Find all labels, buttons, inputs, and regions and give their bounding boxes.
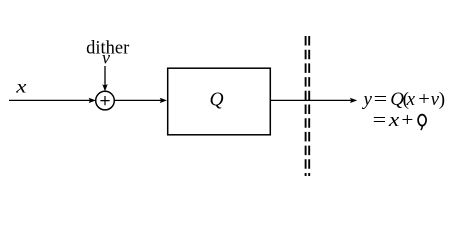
svg-text:+: + <box>418 89 430 110</box>
svg-text:=: = <box>374 89 388 110</box>
svg-text:+: + <box>401 110 413 131</box>
svg-text:x: x <box>406 89 416 110</box>
svg-text:=: = <box>373 110 387 131</box>
plus sign in adder <box>100 96 109 105</box>
svg-text:y: y <box>362 89 373 110</box>
svg-text:): ) <box>439 89 445 110</box>
svg-text:v: v <box>102 48 110 68</box>
output equation line 2: = x + q (quantization error) <box>373 110 414 131</box>
svg-text:x: x <box>388 110 400 131</box>
arrowhead into summing junction <box>89 98 96 103</box>
dashed boundary line right <box>308 36 310 176</box>
wire adder to quantizer block <box>114 99 161 101</box>
svg-text:Q: Q <box>210 90 224 111</box>
wire quantizer output across boundary <box>271 99 352 101</box>
summing junction (adder) <box>96 91 115 110</box>
output equation line 1: y = Q(x + v) <box>362 89 446 110</box>
wire input x to summing junction <box>9 99 91 101</box>
dashed boundary line left <box>305 36 307 176</box>
arrowhead into quantizer block <box>160 98 167 103</box>
svg-text:x: x <box>15 77 26 97</box>
arrowhead at output y <box>350 98 357 103</box>
wire dither v down to adder <box>104 66 106 86</box>
quantization error symbol q (oval with tail) <box>418 115 426 130</box>
quantizer block Q <box>168 68 271 135</box>
arrowhead into top of adder <box>102 84 107 91</box>
